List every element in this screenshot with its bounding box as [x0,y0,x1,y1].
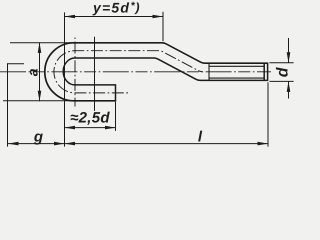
dim a arrow up [38,42,42,53]
dim g arrow left [8,142,19,146]
dim d arrow down [287,52,291,63]
dim l line [65,143,269,145]
dim d line bottom segment [288,81,290,98]
phantom support corner vertical [7,63,9,146]
hook leg end face [115,84,117,101]
svg-text:y=5d*): y=5d*) [92,0,141,16]
dim d extension top [269,62,293,64]
dim d arrow up [287,81,291,92]
thread chamfer line [263,63,265,82]
dim 2.5d arrow right [105,126,116,130]
dim l arrow left [65,142,76,146]
svg-text:l: l [198,129,203,146]
dim 2.5d arrow left [65,126,76,130]
thread root line bottom [209,77,264,79]
rod outer boundary: leg bottom edge and hook outer arc [45,43,116,101]
svg-text:a: a [24,68,40,76]
dim l extension right [267,82,269,146]
dim y extension right [162,12,164,42]
dim d extension bottom [269,80,293,82]
dim a line [39,42,41,101]
svg-text:g: g [33,128,43,145]
common extension line x64 [64,12,66,146]
dim y arrow left [65,15,76,19]
dim a extension bottom [3,100,73,102]
tangent mark line [94,37,96,111]
dim y line [65,16,164,18]
dim l arrow right [258,142,269,146]
thread root line top [209,65,264,67]
thread end face [267,63,269,82]
svg-text:d: d [274,66,291,77]
dim 2.5d line [65,127,116,129]
phantom support corner horizontal [8,63,25,65]
svg-text:≈2,5d: ≈2,5d [70,110,110,127]
dim g line [8,143,65,145]
dim 2.5d right extension [115,102,117,131]
rod lower boundary: leg top edge, hook inner arc, bend, shank bottom edge [63,58,267,85]
hook vertical centerline [74,38,76,107]
rod path centerline [54,51,203,93]
dim y arrow right [153,15,164,19]
main horizontal centerline [0,71,271,73]
dim a extension top [10,42,73,44]
rod upper boundary: hook top edge, bend, shank top edge [75,43,268,63]
thread start line [208,63,210,81]
dim d line top segment [288,38,290,63]
dim a arrow down [38,91,42,102]
dim g arrow right [54,142,65,146]
